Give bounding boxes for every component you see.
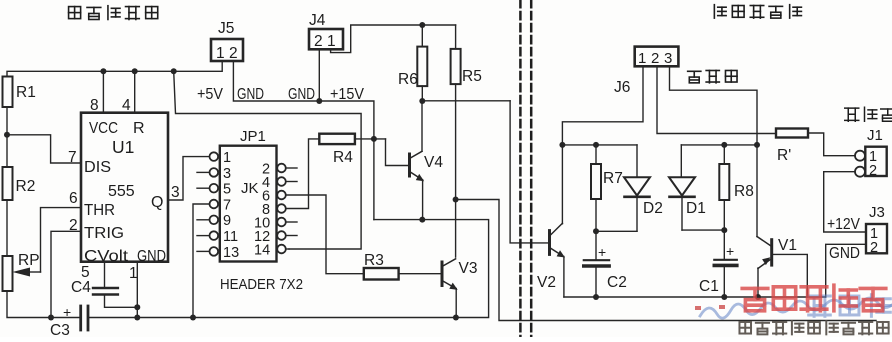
wire: JP1 pin 14 lead to +5V bbox=[286, 248, 289, 250]
JP1 pin 12 circle bbox=[254, 229, 286, 245]
pin 5 CVolt lead bbox=[81, 262, 105, 287]
svg-text:+5V: +5V bbox=[197, 86, 224, 103]
wire: JP1 pin 8 to R4 left bbox=[286, 139, 320, 209]
node: R4 right junction dot bbox=[371, 136, 377, 142]
svg-text:+: + bbox=[63, 304, 71, 320]
wire: bus A bbox=[562, 144, 637, 146]
wire: R4 right lead bbox=[355, 138, 386, 140]
watermark: tagline (RF and antenna design experts) bbox=[739, 321, 888, 334]
wire: R5 bottom down to V3 collector bbox=[455, 84, 457, 257]
J1 pin2 circle bbox=[855, 167, 865, 177]
JP1 pin 6 circle bbox=[262, 188, 286, 204]
svg-text:3: 3 bbox=[223, 166, 231, 182]
svg-text:R8: R8 bbox=[734, 183, 754, 200]
svg-text:1: 1 bbox=[638, 50, 646, 67]
svg-text:Q: Q bbox=[151, 194, 163, 211]
svg-text:THR: THR bbox=[84, 202, 115, 219]
svg-text:4: 4 bbox=[122, 97, 131, 114]
node: C2 top junction dot bbox=[593, 228, 599, 234]
capacitor C4 bbox=[71, 279, 118, 296]
node: C2 bottom rail dot bbox=[593, 294, 599, 300]
wire: JP1 pin 9 stub bbox=[197, 219, 210, 221]
svg-text:14: 14 bbox=[254, 242, 270, 258]
wire: J6 pin1 to bus A bbox=[562, 66, 643, 145]
transistor V4 bbox=[410, 101, 444, 220]
resistor R6 bbox=[398, 25, 427, 101]
svg-text:C2: C2 bbox=[607, 274, 627, 291]
title: inverter controller (Chinese) bbox=[69, 6, 158, 20]
node: R7 top dot bbox=[593, 142, 599, 148]
svg-text:2: 2 bbox=[314, 33, 323, 50]
JP1 pin 14 circle bbox=[254, 242, 286, 258]
transistor V2 bbox=[537, 145, 565, 297]
svg-text:2: 2 bbox=[69, 217, 78, 234]
svg-text:R3: R3 bbox=[364, 252, 384, 269]
wire: JP1 pin 11 stub bbox=[197, 235, 210, 237]
svg-text:11: 11 bbox=[223, 229, 238, 245]
node: R8 top dot bbox=[721, 142, 727, 148]
watermark: red speck 1 bbox=[695, 306, 701, 310]
wire: left rail RP-bottom segment bbox=[7, 291, 80, 318]
title: inverter regulator (Chinese) bbox=[714, 5, 801, 18]
pin 6 label bbox=[69, 190, 78, 207]
label +15V bbox=[330, 86, 365, 103]
wire: right section component rail bbox=[564, 296, 826, 298]
node: V4 emitter junction dot bbox=[419, 217, 425, 223]
wire: R4 node to V4 base bbox=[386, 139, 409, 166]
svg-text:J5: J5 bbox=[218, 20, 234, 37]
capacitor C3 (polarized, in rail) bbox=[50, 304, 88, 339]
pin 4 R riser bbox=[122, 68, 138, 114]
label HEADER 7X2 bbox=[220, 277, 303, 293]
label GND (J3) bbox=[829, 245, 860, 262]
svg-text:RP: RP bbox=[18, 252, 40, 269]
svg-text:JP1: JP1 bbox=[240, 128, 266, 145]
diode D1 bbox=[669, 145, 706, 230]
label ammeter (Chinese) bbox=[845, 107, 892, 121]
wire: left rail R2-RP segment bbox=[6, 200, 8, 256]
svg-text:R': R' bbox=[777, 147, 791, 164]
svg-text:3: 3 bbox=[171, 184, 180, 201]
wire: JP1 pin 12 stub bbox=[286, 235, 297, 237]
wire: left vertical rail R1-R2 segment bbox=[6, 107, 8, 167]
watermark: blue cursive scribble bbox=[700, 298, 892, 318]
wire: J5 pin2 GND run bbox=[233, 61, 374, 139]
svg-text:J6: J6 bbox=[614, 79, 630, 96]
wire: J3 pin2 GND to rail end bbox=[826, 244, 866, 297]
wire: JP1 pin 5 stub bbox=[197, 187, 210, 189]
connector JP1 header box bbox=[220, 128, 277, 262]
JP1 pin 8 circle bbox=[262, 202, 286, 218]
svg-text:R: R bbox=[133, 120, 145, 137]
svg-text:TRIG: TRIG bbox=[84, 225, 124, 242]
svg-text:R2: R2 bbox=[16, 178, 36, 195]
resistor R8 bbox=[719, 145, 754, 230]
connector J4 bbox=[309, 12, 343, 50]
svg-text:GND: GND bbox=[137, 248, 166, 265]
svg-text:+15V: +15V bbox=[330, 86, 365, 103]
dashed section separator line 1 bbox=[519, 0, 522, 337]
node: R1-R2 junction dot bbox=[4, 132, 10, 138]
connector J3 bbox=[866, 204, 887, 256]
wire: JP1 pin 2 stub bbox=[286, 167, 297, 169]
JP1 pin 11 circle bbox=[210, 229, 239, 245]
svg-text:+12V: +12V bbox=[827, 216, 861, 233]
transistor V3 bbox=[442, 259, 477, 318]
diode D2 bbox=[624, 145, 663, 231]
wire: J6 pin3 to V1 collector bbox=[670, 66, 758, 236]
wire: J4 pin2 riser to GND run bbox=[318, 49, 320, 101]
wire: GND run turns down to V2 base bbox=[510, 101, 548, 243]
svg-text:C1: C1 bbox=[699, 278, 719, 295]
JP1 pin 3 circle bbox=[210, 166, 232, 182]
svg-text:V2: V2 bbox=[537, 274, 556, 291]
wire: J4 pin1 to R6/R5 tops bbox=[331, 25, 456, 53]
node: V3 collector junction dot bbox=[453, 197, 459, 203]
JP1 pin 1 circle bbox=[210, 150, 232, 166]
svg-text:V4: V4 bbox=[424, 154, 443, 171]
wire: bus B bbox=[681, 144, 757, 146]
node: V1 emitter rail dot bbox=[755, 294, 761, 300]
J1 pin1 circle bbox=[855, 151, 865, 161]
node: +5V tap dot bbox=[171, 68, 177, 74]
svg-text:J4: J4 bbox=[309, 12, 326, 29]
label GND 2 bbox=[288, 86, 315, 103]
wire: V1 base to rail bbox=[772, 254, 808, 297]
wire: R6 node to V2 base feed bbox=[422, 100, 510, 102]
svg-text:U1: U1 bbox=[112, 137, 134, 157]
wire: JP1 pin 3 stub bbox=[197, 171, 210, 173]
wire: J1 pin2 to J3 pin1 (+12V) bbox=[824, 172, 866, 232]
connector J5 bbox=[211, 20, 243, 62]
resistor R3 bbox=[364, 252, 399, 280]
wire: THR pin6 to RP wiper bbox=[41, 208, 82, 272]
wire: JP1 pin 10 stub bbox=[286, 221, 297, 223]
resistor R1 bbox=[3, 77, 36, 108]
wire: JP1 pin 6 to R3 bbox=[286, 195, 364, 274]
wire: bottom ground rail bbox=[89, 220, 489, 318]
svg-text:3: 3 bbox=[664, 50, 672, 67]
wire: +5V feed down and right bbox=[174, 71, 361, 249]
svg-text:2: 2 bbox=[229, 45, 238, 62]
label GND bbox=[237, 86, 264, 103]
svg-text:8: 8 bbox=[90, 97, 99, 114]
svg-text:DIS: DIS bbox=[84, 159, 111, 176]
svg-text:7: 7 bbox=[68, 149, 77, 166]
wire: junction to DIS pin7 bbox=[7, 135, 81, 163]
svg-text:1: 1 bbox=[223, 150, 231, 166]
node: R6 bottom / V4 collector dot bbox=[419, 98, 425, 104]
svg-text:1: 1 bbox=[129, 265, 138, 282]
transistor V1 (PNP, mirrored) bbox=[757, 237, 797, 298]
svg-text:GND: GND bbox=[288, 86, 315, 103]
svg-text:R4: R4 bbox=[333, 149, 353, 166]
wire: C4 bottom to GND node bbox=[105, 295, 138, 318]
svg-text:J3: J3 bbox=[869, 204, 885, 221]
wire: JP1 pin 13 stub bbox=[197, 250, 210, 252]
svg-text:6: 6 bbox=[69, 190, 78, 207]
pin 3 label bbox=[171, 184, 180, 201]
svg-text:2: 2 bbox=[651, 50, 659, 67]
node: J4 pin2 junction dot bbox=[316, 98, 322, 104]
node: rail junction dot below pin1 bbox=[134, 315, 140, 321]
pin 3 Q output wire to JP1 pin1 bbox=[168, 157, 210, 200]
wire: R3 right lead to V3 base bbox=[399, 273, 441, 275]
svg-text:GND: GND bbox=[829, 245, 860, 262]
pin 8 VCC riser bbox=[90, 68, 106, 114]
svg-text:13: 13 bbox=[223, 245, 239, 261]
resistor R7 bbox=[591, 145, 623, 231]
wire: D1 cathode to C1 node bbox=[682, 229, 724, 231]
JP1 pin 9 circle bbox=[210, 213, 232, 229]
node: C1 top junction dot bbox=[721, 227, 727, 233]
svg-text:9: 9 bbox=[223, 213, 231, 229]
label +5V bbox=[197, 86, 224, 103]
svg-text:R6: R6 bbox=[398, 71, 418, 88]
svg-text:R5: R5 bbox=[462, 68, 482, 85]
JP1 pin 10 circle bbox=[254, 215, 286, 231]
svg-text:VCC: VCC bbox=[89, 120, 118, 137]
wire: D2 cathode to C2 node bbox=[596, 230, 637, 232]
svg-text:C3: C3 bbox=[50, 322, 70, 337]
pin 1 GND lead bbox=[129, 262, 138, 308]
wire: J6 pin2 to R prime bbox=[657, 66, 776, 133]
svg-text:7: 7 bbox=[223, 197, 231, 213]
node: C4/pin1 junction dot bbox=[134, 304, 140, 310]
wire: JP1 pin 7 to ground rail bbox=[193, 204, 210, 318]
node: pin7 rail dot bbox=[190, 315, 196, 321]
svg-text:555: 555 bbox=[108, 183, 135, 200]
svg-text:5: 5 bbox=[223, 182, 231, 198]
node: C1 bottom rail dot bbox=[721, 294, 727, 300]
wire: V3 collector tap right and down to right section bbox=[456, 200, 876, 321]
JP1 pin 7 circle bbox=[210, 197, 232, 213]
svg-text:GND: GND bbox=[237, 86, 264, 103]
svg-text:J1: J1 bbox=[867, 127, 883, 144]
node: pin3/bus B dot bbox=[754, 142, 760, 148]
resistor R2 bbox=[3, 167, 36, 200]
svg-text:R7: R7 bbox=[603, 170, 623, 187]
resistor R5 bbox=[451, 25, 482, 85]
JP1 pin 13 circle bbox=[210, 245, 240, 261]
wire: +V top rail bbox=[7, 71, 222, 76]
svg-text:1: 1 bbox=[216, 45, 225, 62]
potentiometer RP bbox=[3, 252, 41, 291]
svg-text:D2: D2 bbox=[643, 200, 663, 217]
svg-text:+: + bbox=[726, 243, 734, 259]
wire: R4 node down to emitter line bbox=[373, 139, 375, 220]
connector J6 bbox=[614, 47, 678, 96]
watermark: red speck 2 bbox=[719, 305, 725, 309]
node: R6 top dot bbox=[419, 22, 425, 28]
svg-text:R1: R1 bbox=[16, 84, 36, 101]
JP1 pin 5 circle bbox=[210, 182, 232, 198]
svg-text:1: 1 bbox=[327, 33, 336, 50]
JP1 pin 2 circle bbox=[262, 161, 286, 177]
svg-text:2: 2 bbox=[869, 163, 877, 179]
watermark: red brand characters bbox=[742, 285, 886, 311]
wire: TRIG pin2 down to ground rail bbox=[51, 231, 81, 317]
svg-text:V3: V3 bbox=[459, 260, 478, 277]
resistor R4 bbox=[319, 134, 355, 166]
wire: J5 pin1 to +5V rail bbox=[221, 61, 223, 71]
label: transformer (Chinese) bbox=[688, 70, 737, 82]
node: V3 emitter rail dot bbox=[453, 315, 459, 321]
svg-text:CVolt: CVolt bbox=[84, 248, 129, 265]
node: bus A left dot (V2 collector/J6.1) bbox=[559, 142, 565, 148]
label +12V bbox=[827, 216, 861, 233]
wire: JP1 pin 4 stub bbox=[286, 181, 297, 183]
svg-text:D1: D1 bbox=[686, 200, 706, 217]
pin 2 label bbox=[69, 217, 78, 234]
node: TRIG-rail junction dot bbox=[48, 315, 54, 321]
JP1 pin 4 circle bbox=[262, 175, 286, 191]
svg-text:JK: JK bbox=[241, 180, 259, 197]
svg-text:V1: V1 bbox=[778, 237, 797, 254]
op-amp U1 555 timer box bbox=[81, 113, 168, 265]
connector J1 bbox=[865, 127, 886, 179]
svg-text:C4: C4 bbox=[71, 279, 91, 296]
svg-text:HEADER 7X2: HEADER 7X2 bbox=[220, 277, 303, 293]
wire: R prime to J1 pin1 bbox=[808, 133, 855, 156]
watermark: blue echo characters bbox=[809, 295, 891, 317]
svg-text:2: 2 bbox=[870, 240, 878, 256]
capacitor C2 (polarized) bbox=[584, 231, 627, 297]
dashed section separator line 2 bbox=[530, 0, 533, 337]
svg-text:+: + bbox=[598, 244, 606, 260]
capacitor C1 (polarized) bbox=[699, 230, 737, 297]
resistor R prime bbox=[776, 129, 808, 165]
pin 7 label bbox=[68, 149, 77, 166]
